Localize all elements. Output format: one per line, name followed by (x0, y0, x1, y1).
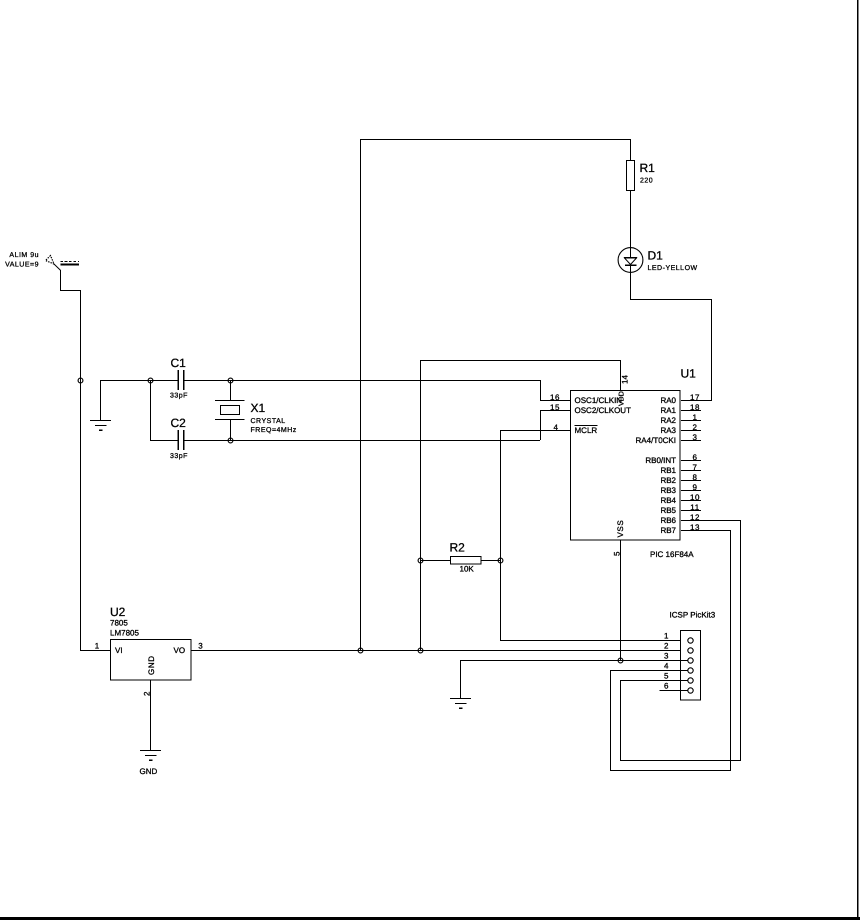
battery BAT ALIM 9u symbol (46, 256, 80, 266)
pin stub RA1 pin 18 (681, 403, 701, 412)
svg-text:7: 7 (692, 463, 697, 472)
ICSP pin hole 4 (688, 668, 693, 673)
LED D1 (618, 248, 698, 299)
svg-text:VI: VI (115, 646, 123, 655)
capacitor C1 (170, 356, 188, 400)
svg-text:RB5: RB5 (660, 506, 676, 515)
svg-text:7805: 7805 (110, 619, 128, 628)
IC U1 PIC16F84A body (571, 367, 697, 560)
svg-text:GND: GND (140, 767, 158, 776)
svg-text:RB3: RB3 (660, 486, 676, 495)
svg-text:RB6: RB6 (660, 516, 676, 525)
pin stub RB2 pin 8 (681, 473, 701, 482)
svg-text:LED-YELLOW: LED-YELLOW (648, 265, 698, 272)
pin stub RB1 pin 7 (681, 463, 701, 472)
wire OSC1 net horizontal y=380 (100, 380, 541, 381)
wire ICSP pin5 to RB6 loop (620, 520, 741, 761)
svg-text:CRYSTAL: CRYSTAL (251, 418, 286, 425)
pin stub RB6 pin 12 wire (681, 513, 741, 522)
wire U2 pin1 (80, 650, 111, 651)
svg-text:9: 9 (692, 483, 697, 492)
wire OSC2 net horizontal y=440 (150, 440, 540, 441)
svg-text:220: 220 (640, 178, 653, 185)
svg-text:RB4: RB4 (660, 496, 676, 505)
junction R2 right (498, 558, 503, 563)
resistor R1 (627, 139, 656, 258)
wire battery to bus (54, 264, 81, 291)
pin VSS stub pin 5 wire down (613, 540, 622, 660)
pin stub RB0 pin 6 (681, 453, 701, 462)
svg-text:RA0: RA0 (660, 396, 676, 405)
ground (below U2) (140, 750, 162, 776)
svg-text:RA4/T0CKI: RA4/T0CKI (636, 436, 676, 445)
svg-text:U1: U1 (681, 367, 697, 381)
svg-text:5: 5 (664, 672, 669, 681)
svg-text:MCLR: MCLR (575, 426, 598, 435)
svg-text:33pF: 33pF (170, 453, 188, 460)
svg-text:VALUE=9: VALUE=9 (5, 262, 39, 269)
svg-text:8: 8 (692, 473, 697, 482)
wire OSC1 to pin16 (540, 380, 570, 401)
crystal X1 (215, 380, 297, 440)
ICSP pin hole 3 (688, 658, 693, 663)
svg-text:RB2: RB2 (660, 476, 676, 485)
svg-text:RA2: RA2 (660, 416, 676, 425)
svg-text:2: 2 (664, 642, 669, 651)
svg-text:33pF: 33pF (170, 393, 188, 400)
svg-text:RB0/INT: RB0/INT (645, 456, 676, 465)
wire loop vertical x=360 (360, 139, 361, 650)
svg-text:R2: R2 (450, 541, 466, 555)
wire pin14 vertical (620, 360, 621, 390)
junction at (230,440) (228, 438, 233, 443)
svg-text:VO: VO (174, 646, 186, 655)
svg-text:C2: C2 (171, 416, 187, 430)
wire OSC2 to pin15 (540, 410, 570, 440)
svg-text:3: 3 (692, 433, 697, 442)
svg-text:1: 1 (664, 632, 669, 641)
pin stub RB7 pin 13 wire (681, 523, 731, 532)
regulator U2 7805 body (110, 605, 191, 680)
wire MCLR net (500, 430, 570, 640)
sheet bottom border (0, 917, 860, 920)
wire ICSP pin3 to ground (460, 660, 688, 698)
junction at (230,380) (228, 378, 233, 383)
resistor R2 (420, 541, 500, 574)
junction at (360,650) (358, 648, 363, 653)
ICSP PicKit3 connector J1 (670, 611, 716, 701)
wire VDD rail vertical x=420 (420, 360, 421, 650)
svg-text:3: 3 (198, 642, 203, 651)
wire U2 pin2 down (143, 680, 152, 750)
svg-text:X1: X1 (251, 401, 266, 415)
ground (ICSP pin3) (450, 698, 471, 709)
capacitor C2 (170, 416, 188, 460)
svg-text:C1: C1 (171, 356, 187, 370)
svg-text:18: 18 (690, 403, 700, 412)
pin stub RB4 pin 10 (681, 493, 701, 502)
svg-text:11: 11 (690, 503, 700, 512)
ICSP pin hole 6 (688, 688, 693, 693)
ICSP pin hole 1 (688, 638, 693, 643)
wire 5V net y=650 (U2 VO to ICSP pin2) (191, 650, 688, 651)
svg-text:OSC2/CLKOUT: OSC2/CLKOUT (575, 406, 632, 415)
svg-text:4: 4 (553, 423, 558, 432)
wire top horizontal y=139 (360, 139, 631, 140)
wire LED to RA0 (630, 299, 712, 401)
junction R2 left (418, 558, 423, 563)
svg-text:6: 6 (664, 682, 669, 691)
wire down to ground from y=380 (100, 380, 101, 420)
label ALIM 9u / VALUE=9 (5, 252, 39, 269)
svg-text:U2: U2 (110, 605, 126, 619)
svg-text:RA3: RA3 (660, 426, 676, 435)
ground (left of C1) (90, 420, 111, 431)
svg-text:LM7805: LM7805 (110, 629, 139, 638)
svg-text:14: 14 (621, 375, 630, 384)
wire left bus vertical (80, 290, 81, 651)
svg-text:16: 16 (550, 393, 560, 402)
wire vertical joining y=380 and y=440 at x=150 (150, 380, 151, 440)
svg-text:1: 1 (95, 642, 100, 651)
ICSP pin hole 2 (688, 648, 693, 653)
pin stub RB5 pin 11 (681, 503, 701, 512)
svg-text:GND: GND (147, 655, 156, 675)
pin stub RA2 pin 1 (681, 413, 701, 422)
svg-text:R1: R1 (640, 161, 656, 175)
svg-text:4: 4 (664, 662, 669, 671)
ICSP pin hole 5 (688, 678, 693, 683)
junction at (420,650) (418, 648, 423, 653)
svg-text:3: 3 (664, 652, 669, 661)
svg-text:VSS: VSS (616, 520, 625, 538)
svg-text:FREQ=4MHz: FREQ=4MHz (251, 427, 297, 434)
junction on bus at y=380 (78, 378, 83, 383)
svg-text:13: 13 (690, 523, 700, 532)
svg-text:1: 1 (692, 413, 697, 422)
svg-text:OSC1/CLKIN: OSC1/CLKIN (575, 396, 623, 405)
pin name MCLR with overline (575, 425, 598, 435)
svg-text:PIC 16F84A: PIC 16F84A (650, 550, 694, 559)
svg-text:17: 17 (690, 393, 700, 402)
svg-text:ALIM 9u: ALIM 9u (9, 252, 39, 259)
sheet right border (857, 0, 859, 920)
svg-text:10K: 10K (460, 565, 475, 574)
svg-text:15: 15 (550, 403, 560, 412)
junction VSS to ICSP pin3 (618, 658, 623, 663)
wire ICSP pin6 stub (660, 690, 689, 691)
pin stub RB3 pin 9 (681, 483, 701, 492)
svg-text:2: 2 (143, 691, 152, 696)
svg-text:RB1: RB1 (660, 466, 676, 475)
svg-text:5: 5 (613, 551, 622, 556)
wire ICSP pin1 horizontal (500, 640, 688, 641)
svg-text:D1: D1 (648, 249, 664, 263)
svg-text:RB7: RB7 (660, 526, 676, 535)
pin stub RA4 pin 3 (681, 433, 701, 442)
svg-text:10: 10 (690, 493, 700, 502)
wire VDD top horizontal y=360 (420, 360, 621, 361)
junction at (150,380) (148, 378, 153, 383)
svg-text:12: 12 (690, 513, 700, 522)
svg-text:RA1: RA1 (660, 406, 676, 415)
svg-text:2: 2 (692, 423, 697, 432)
svg-text:ICSP PicKit3: ICSP PicKit3 (670, 611, 716, 620)
wire ICSP pin4 to RB7 loop (610, 530, 731, 771)
pin stub RA3 pin 2 (681, 423, 701, 432)
svg-text:6: 6 (692, 453, 697, 462)
